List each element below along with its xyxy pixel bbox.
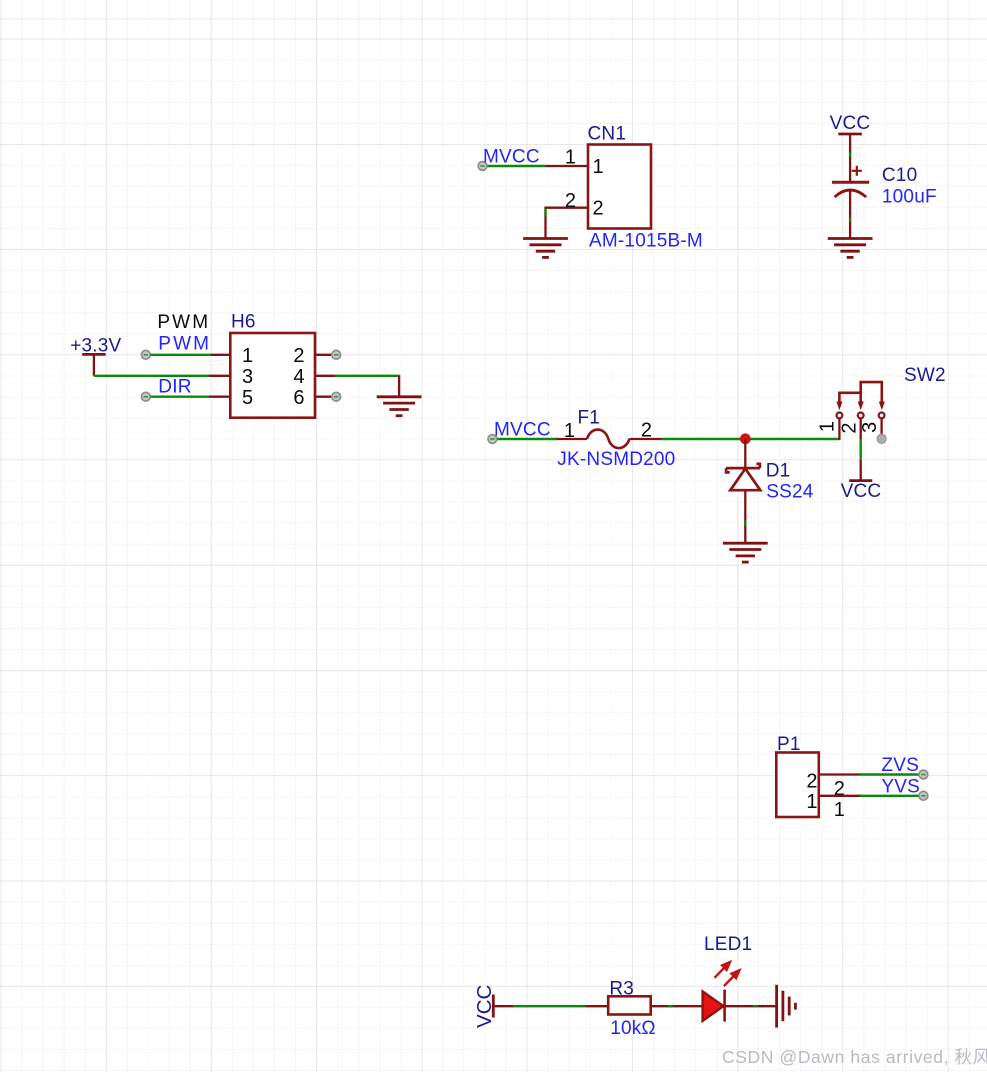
connector H6 [230, 333, 315, 418]
svg-text:DIR: DIR [158, 377, 191, 398]
svg-text:PWM: PWM [157, 312, 210, 333]
wire pin4 to ground [335, 375, 400, 377]
LED1 cathode bar [723, 990, 726, 1022]
switch contact circles [837, 413, 885, 419]
pin 6 stub [315, 396, 335, 398]
svg-text:AM-1015B-M: AM-1015B-M [589, 231, 703, 252]
svg-text:JK-NSMD200: JK-NSMD200 [557, 449, 675, 470]
svg-text:MVCC: MVCC [483, 147, 540, 168]
svg-text:1: 1 [593, 156, 604, 178]
svg-text:2: 2 [593, 198, 604, 220]
pin 2 stub SW2 [860, 418, 862, 440]
wire F1 to junction [661, 438, 745, 440]
port ZVS [919, 770, 928, 779]
switch SW2 body [839, 382, 881, 403]
wire junction to D1 [744, 439, 746, 468]
wire MVCC to F1 [497, 438, 557, 440]
wire DIR to pin5 [150, 396, 210, 398]
port YVS [919, 791, 928, 800]
port DIR [141, 392, 150, 401]
svg-text:100uF: 100uF [882, 187, 937, 208]
wire CN1 pin2 down [544, 207, 546, 239]
junction node [740, 433, 751, 444]
svg-text:10kΩ: 10kΩ [610, 1018, 656, 1039]
LED1 emission arrows [715, 962, 740, 986]
pin 1 stub [211, 354, 231, 356]
port pin2 [332, 350, 341, 359]
svg-text:YVS: YVS [881, 776, 920, 797]
svg-text:R3: R3 [609, 979, 634, 1000]
wire C10 to ground [849, 191, 851, 239]
svg-text:1: 1 [806, 791, 817, 813]
svg-text:1: 1 [242, 345, 253, 367]
ground H6 pin4 [377, 397, 422, 416]
port MVCC [478, 162, 487, 171]
svg-text:5: 5 [242, 387, 253, 409]
wire stub green at CN1 pin2 corner [544, 209, 546, 216]
wire D1 to ground [744, 490, 746, 543]
svg-text:3: 3 [859, 422, 881, 433]
pin 1 stub P1 [819, 795, 861, 797]
svg-text:LED1: LED1 [704, 934, 752, 955]
switch arrowheads [836, 402, 884, 411]
wire pin2 to ZVS [860, 773, 920, 775]
LED1 diode [703, 991, 724, 1021]
svg-text:2: 2 [293, 345, 304, 367]
unconnected pad SW2 pin3 [877, 434, 886, 443]
wire PWM to pin1 [150, 354, 212, 356]
watermark [722, 1044, 987, 1069]
pin 1 stub F1 [556, 438, 587, 440]
svg-text:1: 1 [564, 420, 575, 442]
resistor R3 [608, 996, 651, 1014]
wire pin1 to YVS [860, 795, 920, 797]
pin 4 stub [315, 375, 337, 377]
svg-text:VCC: VCC [841, 481, 882, 502]
svg-text:1: 1 [834, 799, 845, 821]
pin 2 stub P1 [819, 773, 861, 775]
svg-text:6: 6 [293, 387, 304, 409]
svg-text:2: 2 [565, 190, 576, 212]
ground CN1 [523, 239, 568, 258]
wire VCC to R3 [493, 1005, 513, 1007]
svg-text:C10: C10 [882, 165, 917, 186]
connector CN1 [588, 145, 651, 229]
svg-text:D1: D1 [766, 461, 791, 482]
pin 3 stub [209, 375, 231, 377]
pin 3 stub SW2 [880, 418, 882, 436]
ground C10 [828, 239, 873, 258]
svg-text:H6: H6 [231, 312, 256, 333]
svg-text:SW2: SW2 [904, 365, 946, 386]
wire junction to SW2 [745, 438, 839, 440]
pin 5 stub [209, 396, 231, 398]
pin 2 stub CN1 [546, 207, 589, 209]
power flag VCC (SW2) [849, 479, 872, 482]
port PWM [141, 350, 150, 359]
wire MVCC to CN1 [488, 165, 547, 167]
svg-text:1: 1 [816, 421, 838, 432]
capacitor C10 [832, 166, 869, 197]
svg-text:CN1: CN1 [588, 124, 627, 145]
ground D1 [723, 543, 768, 562]
port pin6 [332, 392, 341, 401]
wire SW2 pin2 to VCC [860, 439, 862, 460]
connector P1 [776, 753, 819, 818]
wire +3.3V to pin3 [94, 375, 210, 377]
pin 2 stub F1 [630, 438, 662, 440]
svg-text:MVCC: MVCC [494, 420, 551, 441]
pin 1 stub SW2 [838, 418, 840, 440]
wire LED1 to ground [725, 1005, 777, 1007]
ground LED (rotated) [777, 985, 796, 1028]
svg-text:2: 2 [838, 422, 860, 433]
svg-text:4: 4 [293, 366, 304, 388]
svg-text:ZVS: ZVS [881, 755, 919, 776]
svg-text:3: 3 [242, 366, 253, 388]
pin 2 stub [315, 354, 335, 356]
diode D1 (schottky) [726, 464, 760, 490]
svg-text:VCC: VCC [830, 113, 871, 134]
pin 1 stub CN1 [546, 165, 589, 167]
svg-text:2: 2 [806, 770, 817, 792]
svg-text:SS24: SS24 [766, 481, 814, 502]
wire VCC to C10 [849, 134, 851, 182]
svg-text:1: 1 [565, 147, 576, 169]
svg-text:PWM: PWM [158, 334, 211, 355]
wire R3 to LED1 [651, 1005, 703, 1007]
port MVCC (fuse) [488, 435, 497, 444]
svg-text:F1: F1 [578, 407, 601, 428]
fuse F1 [587, 430, 630, 449]
